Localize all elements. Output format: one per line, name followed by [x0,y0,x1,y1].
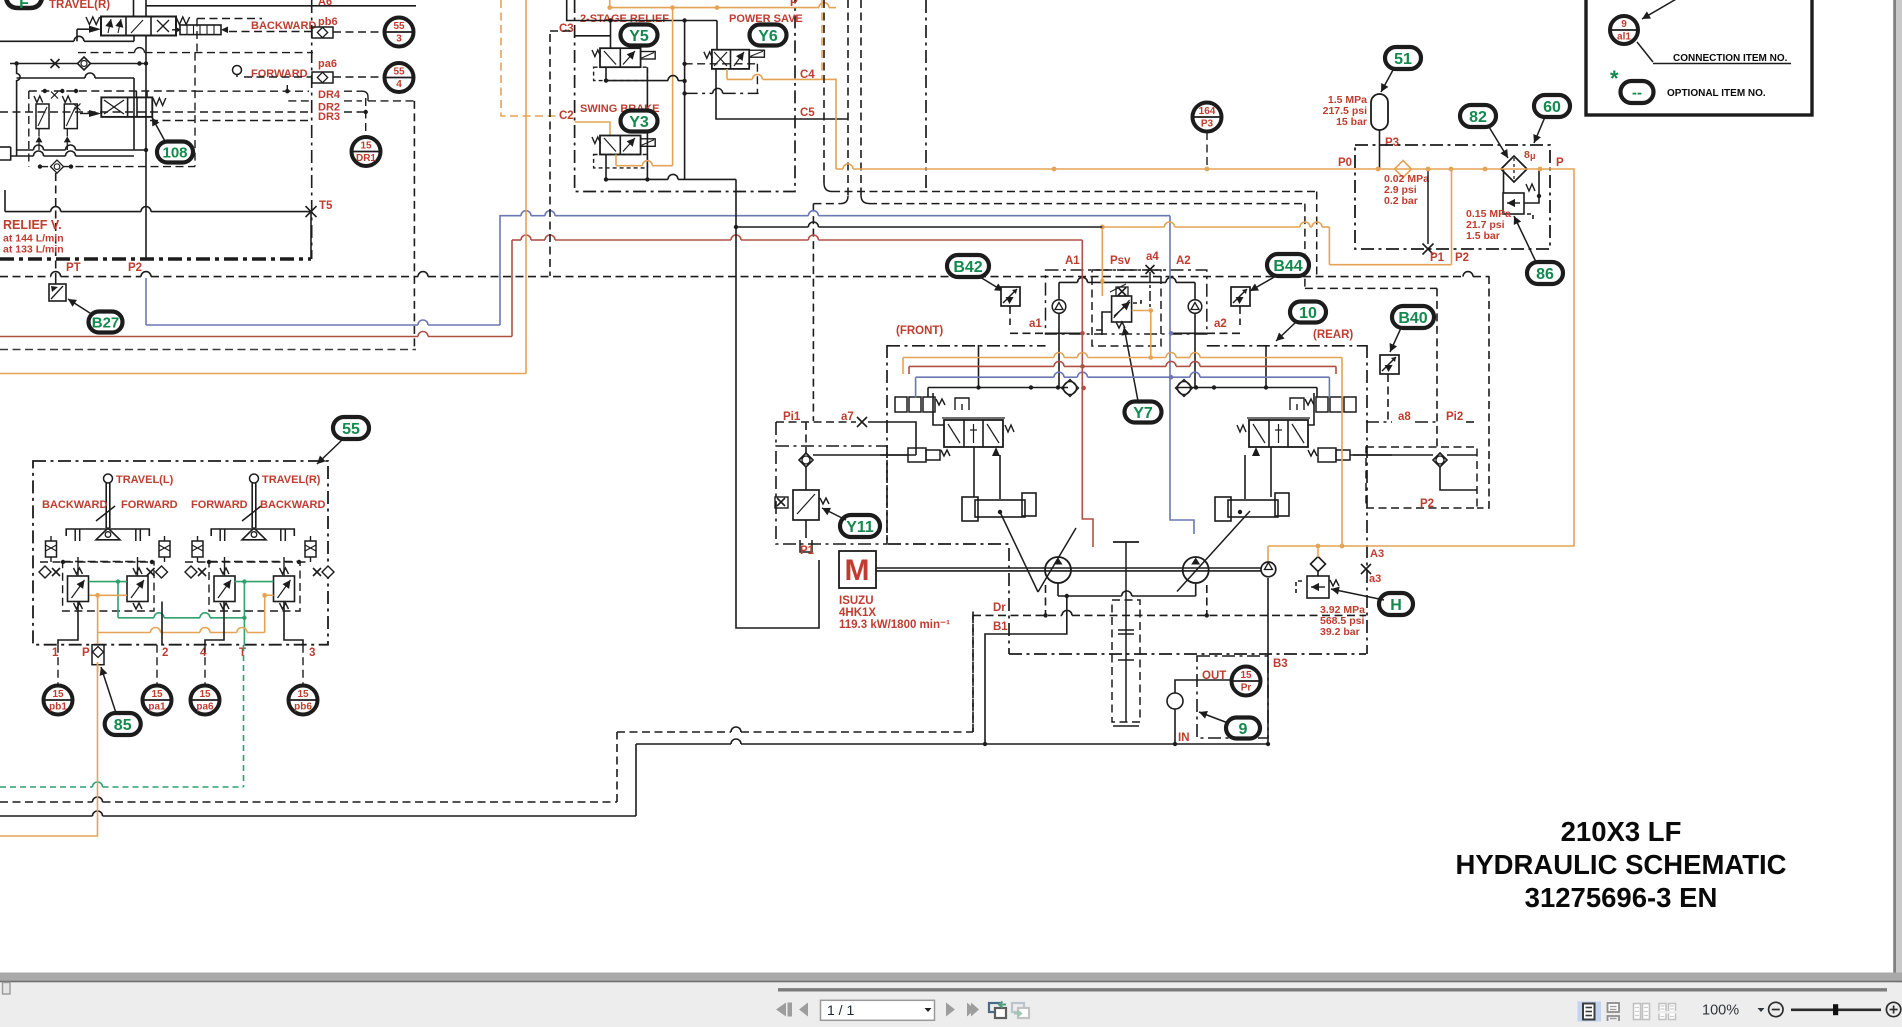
svg-text:P2: P2 [1455,252,1469,264]
svg-text:Pr: Pr [1241,683,1252,694]
svg-text:DR4: DR4 [318,89,341,101]
svg-text:al1: al1 [1617,32,1631,43]
svg-text:BACKWARD: BACKWARD [260,499,325,511]
svg-text:2: 2 [162,647,168,659]
svg-text:FORWARD: FORWARD [121,499,178,511]
svg-text:2-STAGE RELIEF: 2-STAGE RELIEF [580,13,669,25]
svg-text:(FRONT): (FRONT) [896,325,943,337]
svg-text:82: 82 [1469,109,1487,126]
svg-text:3: 3 [309,647,315,659]
svg-text:85: 85 [114,717,132,734]
svg-text:pa6: pa6 [196,702,214,713]
svg-text:HYDRAULIC SCHEMATIC: HYDRAULIC SCHEMATIC [1455,849,1786,880]
svg-text:4: 4 [200,647,207,659]
svg-text:108: 108 [162,144,187,161]
svg-text:TRAVEL(R): TRAVEL(R) [262,474,321,486]
svg-text:P1: P1 [1430,252,1445,264]
svg-text:B44: B44 [1273,258,1302,275]
svg-text:F: F [19,0,29,12]
svg-text:1 / 1: 1 / 1 [827,1002,854,1018]
svg-text:15: 15 [360,140,372,151]
svg-text:15: 15 [151,689,163,700]
svg-text:T5: T5 [319,200,333,212]
svg-text:TRAVEL(L): TRAVEL(L) [116,474,174,486]
svg-text:55: 55 [393,21,405,32]
svg-text:A3: A3 [1370,548,1384,560]
svg-text:OPTIONAL ITEM NO.: OPTIONAL ITEM NO. [1667,88,1766,99]
svg-text:39.2 bar: 39.2 bar [1320,626,1360,638]
svg-text:FORWARD: FORWARD [191,499,248,511]
svg-text:*: * [1610,66,1619,91]
svg-text:DR1: DR1 [356,153,376,164]
svg-text:15 bar: 15 bar [1336,116,1367,128]
svg-text:H: H [1390,597,1402,614]
svg-text:CONNECTION ITEM NO.: CONNECTION ITEM NO. [1673,53,1788,64]
svg-text:Y6: Y6 [758,28,778,45]
svg-text:P2: P2 [128,262,142,274]
svg-text:A1: A1 [1065,255,1080,267]
svg-text:10: 10 [1299,305,1317,322]
svg-text:A2: A2 [1176,255,1191,267]
svg-text:a8: a8 [1398,411,1411,423]
svg-text:DR3: DR3 [318,111,340,123]
svg-text:15: 15 [52,689,64,700]
svg-text:60: 60 [1543,99,1561,116]
svg-text:BACKWARD: BACKWARD [251,20,316,32]
svg-text:pb6: pb6 [318,16,338,28]
svg-text:Y3: Y3 [629,114,649,131]
svg-text:Pi2: Pi2 [1446,411,1463,423]
svg-text:RELIEF V.: RELIEF V. [3,218,62,232]
svg-text:a4: a4 [1146,251,1159,263]
svg-text:ISUZU: ISUZU [839,595,874,607]
svg-text:P: P [790,0,798,9]
svg-text:P1: P1 [800,545,815,557]
svg-text:210X3 LF: 210X3 LF [1561,816,1682,847]
svg-text:FORWARD: FORWARD [251,68,308,80]
svg-text:51: 51 [1394,51,1412,68]
svg-text:at 133 L/min: at 133 L/min [3,244,64,256]
svg-text:T: T [239,647,246,659]
svg-text:TRAVEL(R): TRAVEL(R) [49,0,110,11]
svg-text:15: 15 [297,689,309,700]
svg-text:0.2 bar: 0.2 bar [1384,195,1418,207]
svg-text:C2: C2 [559,110,574,122]
svg-text:B42: B42 [953,259,982,276]
svg-text:3: 3 [396,34,402,45]
svg-text:P: P [82,647,90,659]
svg-text:--: -- [1632,84,1642,101]
svg-text:1.5 bar: 1.5 bar [1466,230,1500,242]
svg-text:B40: B40 [1398,310,1427,327]
svg-text:(REAR): (REAR) [1313,329,1353,341]
svg-text:P0: P0 [1338,157,1352,169]
svg-text:pa6: pa6 [318,58,337,70]
svg-text:Y11: Y11 [846,519,874,536]
svg-text:a3: a3 [1369,573,1381,585]
svg-text:C5: C5 [800,107,815,119]
svg-text:pa1: pa1 [148,702,166,713]
svg-text:P3: P3 [1201,119,1214,130]
svg-text:15: 15 [199,689,211,700]
svg-text:Dr: Dr [993,602,1006,614]
svg-text:164: 164 [1199,106,1216,117]
svg-text:B27: B27 [92,314,120,331]
svg-text:55: 55 [393,66,405,77]
svg-text:a2: a2 [1214,318,1227,330]
svg-text:BACKWARD: BACKWARD [42,499,107,511]
svg-text:pb1: pb1 [49,702,67,713]
svg-text:C3: C3 [559,23,574,35]
svg-text:4HK1X: 4HK1X [839,607,876,619]
svg-text:119.3 kW/1800 min⁻¹: 119.3 kW/1800 min⁻¹ [839,619,950,631]
svg-text:a1: a1 [1029,318,1042,330]
svg-text:P3: P3 [1385,137,1399,149]
svg-text:9: 9 [1621,19,1627,30]
svg-text:M: M [845,554,870,587]
svg-text:9: 9 [1239,721,1248,738]
svg-text:A6: A6 [318,0,332,8]
svg-text:86: 86 [1536,266,1554,283]
svg-text:P2: P2 [1420,498,1434,510]
svg-text:15: 15 [1240,670,1252,681]
svg-text:pb6: pb6 [294,702,312,713]
svg-text:100%: 100% [1702,1003,1739,1019]
svg-text:Y5: Y5 [629,28,649,45]
svg-text:Psv: Psv [1110,255,1131,267]
svg-text:Y7: Y7 [1133,405,1153,422]
svg-text:P: P [1556,157,1564,169]
svg-text:31275696-3 EN: 31275696-3 EN [1525,882,1718,913]
svg-text:55: 55 [342,421,360,438]
svg-text:4: 4 [396,79,402,90]
svg-text:IN: IN [1178,732,1190,744]
svg-text:B1: B1 [993,621,1008,633]
svg-text:PT: PT [66,262,81,274]
svg-text:μ: μ [1530,151,1536,161]
svg-text:B3: B3 [1273,658,1288,670]
